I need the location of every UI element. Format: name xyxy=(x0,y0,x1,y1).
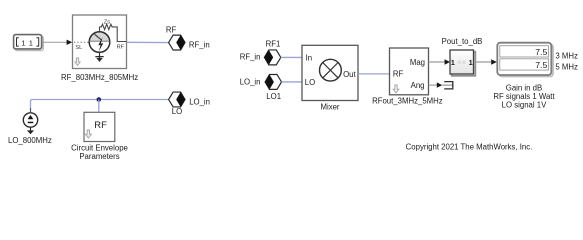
svg-text:Pout_to_dB: Pout_to_dB xyxy=(442,37,483,46)
svg-text:7.5: 7.5 xyxy=(535,47,547,57)
wire mixer Out to RFout xyxy=(358,73,390,75)
svg-text:LO: LO xyxy=(305,78,315,87)
RFout block (outport RFout_3MHz_5MHz) xyxy=(390,48,429,95)
svg-text:RF: RF xyxy=(117,45,125,51)
resistor Zs xyxy=(100,24,127,41)
svg-text:1: 1 xyxy=(451,58,455,67)
connector LO1 (input) xyxy=(265,75,281,90)
svg-text:LO_in: LO_in xyxy=(189,98,210,107)
svg-text:RF: RF xyxy=(393,70,404,79)
wire constant to source xyxy=(42,41,66,43)
ground of source xyxy=(99,52,101,58)
wire Ang to terminator xyxy=(429,84,438,86)
wire Mag to Pout_to_dB xyxy=(429,61,446,63)
svg-text:3 MHz: 3 MHz xyxy=(555,51,578,60)
svg-text:LO_in: LO_in xyxy=(240,78,261,87)
svg-text:1: 1 xyxy=(469,58,473,67)
svg-text:In: In xyxy=(306,53,313,62)
connector RF1 (input) xyxy=(264,50,280,65)
mixer block U1 xyxy=(302,45,358,100)
svg-text:Parameters: Parameters xyxy=(79,152,119,161)
svg-text:Mag: Mag xyxy=(410,58,425,67)
ground of LO source xyxy=(30,127,32,130)
wire RF to connector xyxy=(127,41,169,43)
svg-text:Out: Out xyxy=(343,70,356,79)
wire LO net xyxy=(31,100,169,109)
mixer circle symbol xyxy=(320,59,342,81)
svg-text:RF_in: RF_in xyxy=(189,41,210,50)
source circle xyxy=(89,31,110,41)
source block RF_803MHz_805MHz xyxy=(73,15,127,69)
svg-text:LO signal 1V: LO signal 1V xyxy=(502,101,547,110)
SL port dotted wire xyxy=(74,41,89,43)
svg-text:LO: LO xyxy=(172,107,182,116)
svg-text:Ang: Ang xyxy=(411,81,425,90)
terminator xyxy=(442,82,453,89)
wire RF1 to mixer xyxy=(281,56,302,58)
svg-text:RF_803MHz_805MHz: RF_803MHz_805MHz xyxy=(61,73,138,82)
svg-text:RF1: RF1 xyxy=(266,39,281,48)
connector RF (output) xyxy=(169,35,185,50)
svg-text:RF signals 1 Watt: RF signals 1 Watt xyxy=(493,92,555,101)
svg-text:7.5: 7.5 xyxy=(535,60,547,70)
svg-text:RF: RF xyxy=(94,119,107,130)
svg-text:5 MHz: 5 MHz xyxy=(555,63,578,72)
lightning bolt xyxy=(98,37,103,51)
svg-text:LO1: LO1 xyxy=(266,92,281,101)
stub to wire xyxy=(30,108,32,113)
svg-text:RF_in: RF_in xyxy=(240,53,261,62)
svg-text:Copyright 2021 The MathWorks,: Copyright 2021 The MathWorks, Inc. xyxy=(406,142,533,151)
svg-text:SL: SL xyxy=(75,45,82,51)
LO source circle xyxy=(23,108,37,135)
gray arrow icon xyxy=(75,58,80,66)
constant block [1 1] xyxy=(14,35,44,51)
svg-text:1: 1 xyxy=(29,38,33,47)
svg-text:LO_800MHz: LO_800MHz xyxy=(8,136,52,145)
connector LO (output) xyxy=(169,92,185,107)
svg-text:RF: RF xyxy=(166,25,177,34)
Pout_to_dB block xyxy=(450,50,475,76)
wire Pout_to_dB to display xyxy=(475,61,492,63)
svg-text:RFout_3MHz_5MHz: RFout_3MHz_5MHz xyxy=(372,97,443,106)
wire LO1 to mixer xyxy=(282,81,303,83)
junction node xyxy=(97,97,102,102)
display block xyxy=(497,43,553,77)
wire junction to Circuit Envelope block xyxy=(98,100,100,113)
svg-text:Mixer: Mixer xyxy=(320,102,339,111)
needle xyxy=(95,34,102,39)
svg-text:1: 1 xyxy=(21,38,25,47)
Circuit Envelope Parameters block xyxy=(84,112,115,141)
